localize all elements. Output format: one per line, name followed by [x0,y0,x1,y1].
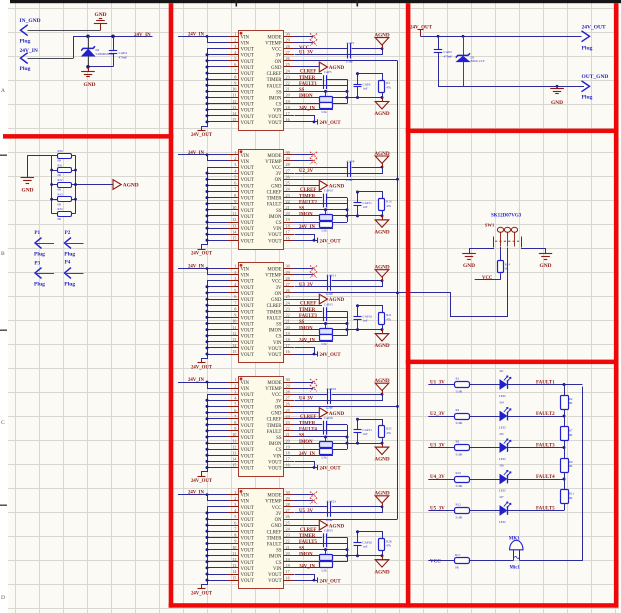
wire VIN tie U2 [208,155,229,161]
svg-text:VOUT: VOUT [241,506,254,511]
pin 14 (VOUT) of U1 [228,115,239,117]
junction pin1 U3 [206,267,209,270]
svg-text:SS: SS [299,546,305,551]
wire VOUT pin11 U4 [207,443,228,445]
power port AGND (GND pin) U4 [319,408,327,418]
pin 7 (VOUT) of U4 [228,418,239,420]
svg-text:FAULT1: FAULT1 [299,82,317,87]
svg-text:8: 8 [234,193,236,198]
wire GND pin to AGND U5 [294,525,320,527]
power port GND (resistor bank) [27,155,29,178]
wire VOUT pin13 U5 [207,567,228,569]
svg-text:0R: 0R [58,202,62,206]
svg-text:VIN: VIN [273,341,282,346]
svg-text:VOUT: VOUT [241,442,254,447]
svg-text:510R: 510R [456,484,464,488]
pin 8 (VOUT) of U2 [228,197,239,199]
pin 21 (SS) of U2 [284,209,295,211]
wire VOUT pin12 U1 [207,103,228,105]
wire IMON row U4 [294,443,382,445]
power port AGND (bottom) U3 [382,330,384,334]
svg-text:VOUT: VOUT [241,353,254,358]
capacitor CAP15 [323,307,325,321]
svg-text:22: 22 [286,539,290,544]
svg-text:TIMER: TIMER [299,76,316,81]
svg-text:25: 25 [286,520,290,525]
svg-text:LED: LED [499,489,506,493]
svg-text:P3: P3 [34,261,40,267]
svg-text:MODE: MODE [267,381,281,386]
svg-text:13: 13 [232,105,236,110]
diode D1 B360-13-F [463,36,465,56]
bank left rail [51,155,53,213]
svg-text:VOUT: VOUT [241,97,254,102]
wire led row 2 mid [470,416,500,418]
svg-text:16: 16 [286,236,290,241]
capacitor CAP16 1nF [357,306,359,317]
svg-text:19: 19 [286,331,290,336]
wire TIMER row U2 [294,197,322,199]
svg-text:TIMER: TIMER [299,308,316,313]
junction SS rail U4 [346,436,349,439]
wire VOUT pin9 U5 [207,543,228,545]
wire top rail to resistor R28 [358,532,383,539]
svg-text:27: 27 [286,50,290,55]
wire VOUT pin8 U5 [207,537,228,539]
svg-text:IMON: IMON [269,442,282,447]
wire CS row U5 [294,561,347,563]
svg-text:2.2uF: 2.2uF [346,178,354,182]
wire ON row U4 [294,406,398,408]
svg-text:GND: GND [271,184,282,189]
power port AGND (GND pin) U5 [319,520,327,530]
wire 24V_IN into pin1 U5 [178,494,228,496]
svg-text:VOUT: VOUT [241,191,254,196]
svg-text:ON: ON [275,292,282,297]
junction right rail R33 [74,198,77,201]
wire VOUT pin12 U4 [207,449,228,451]
svg-text:24V_OUT: 24V_OUT [582,24,606,30]
svg-text:FAULT4: FAULT4 [299,428,317,433]
pin 13 (VOUT) of U1 [228,109,239,111]
pin 8 (VOUT) of U4 [228,424,239,426]
wire FAULT row U5 [294,543,347,545]
wire IMON row U1 [294,97,382,99]
svg-text:VOUT: VOUT [268,353,281,358]
pin 25 (GND) of U4 [284,412,295,414]
svg-text:24V_IN: 24V_IN [20,48,38,54]
svg-text:8: 8 [234,420,236,425]
power port AGND (top) U5 [382,503,384,507]
pin 16 (VOUT) of U3 [284,354,295,356]
pin 1 (VIN) of U2 [228,154,239,156]
svg-text:24V_OUT: 24V_OUT [191,133,213,138]
svg-text:8: 8 [234,533,236,538]
pin 16 (VOUT) of U5 [284,580,295,582]
pin 15 (VOUT) of U3 [228,354,239,356]
wire VOUT pin5 U2 [207,179,228,181]
svg-text:VIN: VIN [241,154,250,159]
power port GND (out) [557,86,559,88]
svg-text:R33: R33 [58,193,64,197]
svg-text:VOUT: VOUT [241,530,254,535]
svg-text:1nF: 1nF [363,545,368,549]
pin 22 (FAULT) of U3 [284,317,295,319]
no-connect VTEMP U4 [294,388,313,390]
no-connect MODE U5 [294,494,313,496]
pin 14 (VOUT) of U3 [228,347,239,349]
wire switch to right GND [522,248,546,254]
svg-text:AGND: AGND [374,230,390,236]
svg-text:CAP1: CAP1 [347,41,355,45]
wire top rail to resistor R21 [358,306,383,313]
power port AGND (top) U4 [382,391,384,395]
wire ON row U3 [294,292,398,294]
junction IMON R U4 [381,442,384,445]
svg-text:10: 10 [232,205,236,210]
svg-text:7: 7 [234,300,236,305]
TVS diode D2 5.0SMDJ24A [88,36,90,49]
svg-text:VTEMP: VTEMP [265,160,282,165]
svg-text:12: 12 [232,99,236,104]
wire IMON row U3 [294,329,382,331]
pin 7 (VOUT) of U2 [228,191,239,193]
svg-text:TIMER: TIMER [267,536,283,541]
svg-text:VOUT: VOUT [268,121,281,126]
svg-text:11: 11 [232,325,236,330]
wire TIMER to rail U5 [327,537,347,539]
svg-text:510R: 510R [456,453,464,457]
svg-text:22: 22 [286,313,290,318]
junction SS rail U2 [346,208,349,211]
junction SS divider stem U2 [324,208,327,211]
pin 14 (VOUT) of U2 [228,234,239,236]
junction right rail R31 [74,169,77,172]
svg-text:24V_OUT: 24V_OUT [320,240,342,245]
wire SS row U3 [294,323,347,325]
svg-text:ON: ON [275,60,282,65]
pin 25 (GND) of U2 [284,185,295,187]
pin 14 (VOUT) of U5 [228,574,239,576]
svg-text:IMON: IMON [299,440,313,445]
svg-text:24V_OUT: 24V_OUT [320,467,342,472]
svg-text:47k: 47k [386,544,391,548]
svg-text:2: 2 [234,270,236,275]
svg-text:VOUT: VOUT [241,347,254,352]
svg-text:20: 20 [286,551,290,556]
wire VOUT pin5 U4 [207,406,228,408]
svg-text:5: 5 [234,514,236,519]
svg-text:16: 16 [286,463,290,468]
resistor R34 0R [52,213,58,215]
pin 11 (VOUT) of U5 [228,555,239,557]
wire CLREF stub U1 [294,73,322,75]
pin 2 (VIN) of U3 [228,274,239,276]
junction IMON R U2 [381,214,384,217]
svg-text:0R: 0R [58,188,62,192]
svg-text:MODE: MODE [267,154,281,159]
wire VOUT pin13 U2 [207,228,228,230]
wire ON to switch [398,248,508,317]
svg-text:CLREF: CLREF [267,530,282,535]
wire TIMER row U4 [294,424,322,426]
wire VOUT pin12 U3 [207,335,228,337]
pin 25 (GND) of U5 [284,525,295,527]
svg-text:VIN: VIN [241,381,250,386]
wire VOUT pin11 U5 [207,555,228,557]
wire R17 to mic [469,560,513,562]
svg-text:CLREF: CLREF [300,528,316,533]
svg-text:VOUT: VOUT [241,399,254,404]
svg-text:29: 29 [286,270,290,275]
capacitor CAP26 1nF [357,532,359,543]
svg-text:VIN: VIN [241,42,250,47]
junction VCC/AGND U2 [381,166,384,169]
wire diode to cap bottom [88,66,113,68]
svg-text:19: 19 [286,217,290,222]
pin 2 (VIN) of U1 [228,42,239,44]
wire VOUT pin7 U1 [207,73,228,75]
junction ON U3 [396,292,399,295]
svg-text:TIMER: TIMER [267,310,283,315]
junction D1 [462,35,465,38]
svg-text:VCC: VCC [272,393,282,398]
junction SS rail U5 [346,548,349,551]
svg-text:GND: GND [84,82,96,88]
wire top rail to resistor R3 [358,74,383,81]
svg-text:SS: SS [299,434,305,439]
pin 9 (VOUT) of U1 [228,85,239,87]
junction VOUT16 U1 [313,121,316,124]
svg-text:24V_OUT: 24V_OUT [191,252,213,257]
svg-text:21: 21 [286,432,290,437]
junction fault chain 1 [563,383,566,386]
svg-text:VTEMP: VTEMP [265,387,282,392]
svg-text:VOUT: VOUT [241,424,254,429]
svg-text:R21: R21 [386,313,392,317]
bank right rail [75,155,77,213]
svg-text:VOUT: VOUT [268,115,281,120]
junction left rail R31 [50,169,53,172]
svg-text:AGND: AGND [374,343,390,349]
svg-text:SK12D07VG3: SK12D07VG3 [491,213,522,218]
svg-text:21: 21 [286,87,290,92]
svg-text:9: 9 [234,81,236,86]
svg-text:23: 23 [286,420,290,425]
pin 5 (VOUT) of U1 [228,60,239,62]
svg-text:SS: SS [276,90,282,95]
svg-text:510R: 510R [456,390,464,394]
junction IMON rail2 U5 [346,554,349,557]
pin 23 (TIMER) of U2 [284,197,295,199]
pin 15 (VOUT) of U1 [228,121,239,123]
no-connect VTEMP U1 [294,42,313,44]
svg-text:28: 28 [286,44,290,49]
pin 4 (VOUT) of U5 [228,512,239,514]
pin 23 (TIMER) of U3 [284,311,295,313]
resistor R12 510R [455,508,470,514]
svg-text:FAULT5: FAULT5 [299,540,317,545]
svg-text:CAP10: CAP10 [324,189,333,193]
svg-text:AGND: AGND [374,111,390,117]
power port GND (switch left) [462,253,476,255]
wire TIMER row U5 [294,537,322,539]
wire led row 3 right [507,447,564,449]
wire 24V_IN into pin1 U2 [178,154,228,156]
svg-text:25: 25 [286,408,290,413]
pin 10 (VOUT) of U5 [228,549,239,551]
svg-text:IMON: IMON [299,213,313,218]
svg-text:VOUT: VOUT [241,109,254,114]
svg-text:R30: R30 [58,149,64,153]
svg-text:CLREF: CLREF [267,72,282,77]
capacitor CAP25 [323,533,325,547]
power port GND (bottom of D2) [88,67,90,72]
svg-text:R28: R28 [386,539,392,543]
pin 23 (TIMER) of U5 [284,537,295,539]
VOUT bus U5 [202,507,229,589]
pin 9 (VOUT) of U2 [228,203,239,205]
pin 27 (3V) of U1 [284,54,295,56]
wire VOUT pin6 U4 [207,412,228,414]
svg-text:24V_OUT: 24V_OUT [320,121,342,126]
svg-text:30: 30 [286,150,290,155]
section divider horizontal bottom [169,603,619,608]
wire FAULT row U3 [294,317,347,319]
wire VCC stub [475,279,501,281]
pin 1 (VIN) of U4 [228,382,239,384]
power port 24V_OUT below U2 [198,249,206,251]
pin 5 (VOUT) of U2 [228,179,239,181]
pin 7 (VOUT) of U5 [228,531,239,533]
resistor R30 0R [52,155,58,157]
svg-text:9: 9 [234,539,236,544]
wire VOUT pin8 U4 [207,424,228,426]
svg-text:2: 2 [234,383,236,388]
pin 30 (MODE) of U4 [284,382,295,384]
wire SS row U2 [294,209,347,211]
pin 18 (VIN) of U5 [284,567,295,569]
svg-text:VOUT: VOUT [241,66,254,71]
LED D7 [500,506,507,515]
pin 7 (VOUT) of U3 [228,305,239,307]
pin 28 (VCC) of U3 [284,280,295,282]
svg-text:P1: P1 [34,230,40,236]
svg-text:3: 3 [234,44,236,49]
wire IMON row U2 [294,215,382,217]
pin 3 (VOUT) of U1 [228,48,239,50]
junction SS divider stem U3 [324,322,327,325]
junction IMON rail2 U4 [346,442,349,445]
junction fault chain 4 [563,478,566,481]
svg-text:ON: ON [275,405,282,410]
pin 23 (TIMER) of U4 [284,424,295,426]
pin 25 (GND) of U1 [284,66,295,68]
svg-text:2: 2 [234,38,236,43]
svg-text:20: 20 [286,93,290,98]
rail TIMER-CS U5 [347,537,349,561]
svg-text:15: 15 [232,117,236,122]
pin 6 (VOUT) of U1 [228,66,239,68]
svg-text:Plug: Plug [20,38,31,44]
svg-text:3V: 3V [276,286,282,291]
svg-text:10: 10 [232,87,236,92]
svg-text:LED: LED [499,426,506,430]
wire IN_GND to GND [28,30,101,32]
svg-text:CLREF: CLREF [267,418,282,423]
pin 4 (VOUT) of U3 [228,286,239,288]
wire VOUT pin15 U1 [207,121,228,123]
svg-text:29: 29 [286,38,290,43]
pin 25 (GND) of U3 [284,299,295,301]
svg-text:R25: R25 [386,427,392,431]
svg-text:SS: SS [276,209,282,214]
wire VOUT pin4 U5 [207,512,228,514]
svg-text:0R: 0R [58,173,62,177]
svg-text:R31: R31 [58,164,64,168]
wire VOUT pin13 U3 [207,341,228,343]
svg-text:OUT_GND: OUT_GND [582,74,609,80]
top border tick x=357 [357,0,359,7]
svg-text:ON: ON [275,178,282,183]
wire VOUT pin5 U3 [207,292,228,294]
svg-text:CLREF: CLREF [300,302,316,307]
svg-text:VOUT: VOUT [241,412,254,417]
pin 24 (CLREF) of U4 [284,418,295,420]
junction right rail R32 [74,183,77,186]
svg-text:VOUT: VOUT [241,233,254,238]
svg-text:VOUT: VOUT [241,543,254,548]
wire VOUT pin9 U3 [207,317,228,319]
svg-text:GND: GND [271,66,282,71]
wire VOUT pin5 U5 [207,519,228,521]
svg-text:IMON: IMON [269,555,282,560]
capacitor CAP23 2.2uF [327,501,329,516]
pin 20 (IMON) of U4 [284,443,295,445]
svg-text:15: 15 [232,463,236,468]
junction IMON rail2 U2 [346,214,349,217]
wire VOUT pin10 U3 [207,323,228,325]
svg-text:22: 22 [286,426,290,431]
power port AGND (bank) [113,180,121,190]
svg-text:VCC: VCC [272,506,282,511]
wire top rail to resistor R13 [358,192,383,199]
wire 24V_IN run [28,58,74,60]
pin 22 (FAULT) of U2 [284,203,295,205]
section divider horizontal top-right [406,129,619,134]
svg-text:CAP15: CAP15 [324,302,333,306]
wire CS row U4 [294,449,347,451]
svg-text:VOUT: VOUT [241,341,254,346]
svg-text:VOUT: VOUT [241,78,254,83]
wire TIMER to rail U1 [327,79,347,81]
svg-text:29: 29 [286,496,290,501]
wire VOUT pin9 U4 [207,430,228,432]
wire VOUT pin10 U2 [207,209,228,211]
junction fault chain 2 [563,415,566,418]
wire 24V_IN row U4 [294,455,333,457]
power port AGND (GND pin) U2 [319,181,327,191]
divider resistors 4.02k/3.3k U3 [325,324,327,329]
svg-text:7: 7 [234,68,236,73]
wire CLREF stub U2 [294,191,322,193]
svg-text:Mic1: Mic1 [510,566,521,571]
svg-text:CS: CS [276,448,282,453]
svg-text:IMON: IMON [269,215,282,220]
wire 3V row U4 [295,395,383,401]
svg-text:VIN: VIN [241,274,250,279]
resistor R21 47k [379,313,385,325]
